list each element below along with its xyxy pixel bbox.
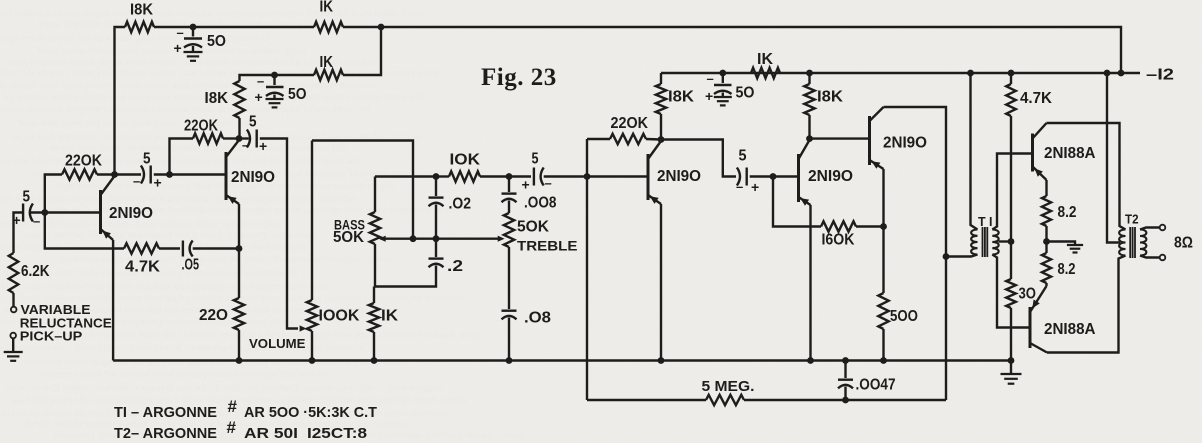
capacitor C2 50uF decoupling with ground [266, 75, 284, 107]
potentiometer BASS 50K body [370, 177, 380, 287]
label + (C11) [522, 177, 530, 193]
node Q1 collector [111, 171, 118, 178]
label - (C2) [257, 74, 264, 89]
node rail Q2 emitter chain [236, 357, 243, 364]
svg-text:IK: IK [757, 51, 774, 68]
svg-text:8.2: 8.2 [1058, 261, 1076, 278]
resistor R19 4.7K (bias) [1006, 73, 1016, 241]
wire .05 to Q2 emitter [193, 247, 239, 249]
capacitor C12 50uF decoupling with ground [714, 73, 732, 105]
svg-text:2NI9O: 2NI9O [109, 205, 153, 222]
label VARIABLE [21, 302, 91, 317]
resistor R9 220 (Q2 emitter) [234, 298, 244, 330]
label 500 [890, 308, 918, 325]
resistor R22 8.2 (lower emitter) [1042, 242, 1051, 287]
svg-text:+: + [154, 175, 162, 191]
svg-text:.O2: .O2 [449, 196, 472, 213]
svg-text:.OO47: .OO47 [856, 377, 896, 394]
label + (C3) [13, 212, 21, 228]
wire bass top to node [375, 175, 436, 177]
label 50 (C1) [207, 33, 226, 50]
wire Q5 collector to T1 [884, 107, 947, 400]
node Q4 base [770, 173, 777, 180]
svg-text:5O: 5O [207, 33, 226, 50]
label 2N190 (Q1) [109, 205, 153, 222]
capacitor C4 5uF interstage [115, 166, 151, 184]
capacitor C7 .02 [429, 177, 444, 239]
svg-text:IOK: IOK [450, 152, 481, 169]
svg-text:5: 5 [143, 151, 151, 168]
svg-text:2NI88A: 2NI88A [1044, 321, 1096, 338]
transistor Q1 2N190 [101, 176, 115, 240]
svg-text:I8K: I8K [205, 90, 229, 107]
node 50uF-3 tap [719, 70, 726, 77]
svg-text:–: – [736, 179, 743, 194]
resistor R18 5 MEG (overall feedback) [587, 395, 946, 405]
node wiper/.02/.2 [433, 235, 440, 242]
capacitor C1 50uF decoupling with ground [184, 27, 203, 61]
wire stage3 input vertical [586, 139, 588, 400]
wire Q3 emitter to rail [660, 204, 662, 361]
label .2 [447, 258, 463, 275]
label 5 MEG. [702, 378, 755, 395]
svg-text:6.2K: 6.2K [21, 263, 50, 280]
svg-text:IOOK: IOOK [319, 308, 361, 325]
label TREBLE [517, 238, 578, 254]
label 2N190 (Q5) [883, 135, 927, 152]
resistor R7 4.7K (feedback) [124, 243, 159, 253]
wire T2 secondary bottom to terminal [1140, 256, 1160, 258]
label 4.7K (R19) [1020, 90, 1053, 107]
wire Q4 collector to Q5 base [810, 137, 870, 139]
svg-text:+: + [259, 138, 267, 154]
svg-text:5: 5 [249, 114, 257, 131]
label IK (R11) [381, 308, 399, 325]
node 4.7K rail [1008, 70, 1015, 77]
svg-text:–: – [707, 71, 714, 86]
wire T1 secondary top to upper output base [992, 154, 1032, 230]
wire Q3 base [587, 175, 648, 177]
svg-text:I6OK: I6OK [822, 232, 856, 249]
label 2N188A (Q6) [1044, 145, 1096, 162]
label PICK-UP [20, 329, 83, 344]
resistor R1 18K (top-left, in top rail) [125, 22, 154, 32]
resistor R16 160K (feedback Q4 base to Q5 emitter) [773, 177, 884, 232]
wire rail to ground [1010, 361, 1012, 375]
node 500 rail [880, 357, 887, 364]
transistor Q5 2N190 [870, 107, 884, 169]
svg-text:5OO: 5OO [890, 308, 918, 325]
label 50K (bass) [333, 229, 365, 246]
wire ground rail [113, 359, 1011, 361]
resistor R11 1K (bass return) [369, 287, 379, 361]
label T2 [1125, 212, 1139, 227]
node Q2 base branch [166, 171, 173, 178]
potentiometer VOLUME 100K body [307, 141, 317, 361]
node treble top [506, 173, 513, 180]
caption T1 spec [114, 397, 377, 421]
label - (C3) [33, 214, 40, 229]
svg-text:.OO8: .OO8 [524, 195, 557, 212]
svg-text:2NI9O: 2NI9O [231, 169, 275, 186]
transistor Q3 2N190 [648, 141, 661, 204]
svg-text:TREBLE: TREBLE [517, 238, 578, 254]
label 100K [319, 308, 361, 325]
svg-text:I8K: I8K [668, 89, 695, 106]
resistor R4 18K (Q2 collector load) [234, 81, 244, 118]
label 5 (C13) [739, 148, 747, 165]
svg-text:#: # [227, 418, 237, 437]
label 220K (R12) [611, 115, 649, 132]
node at 50uF cap 2 [271, 72, 278, 79]
bass wiper arrow (left) [379, 236, 386, 242]
wire left vertical from top rail to Q1 collector node [115, 27, 126, 175]
svg-text:TI – ARGONNE: TI – ARGONNE [114, 404, 217, 421]
wire T1 primary top [971, 73, 978, 230]
svg-text:.O8: .O8 [524, 310, 551, 327]
node top rail to second rail tap [378, 24, 385, 31]
wire 18K to Q2 collector node [238, 118, 240, 139]
node .0047 top rail [842, 357, 849, 364]
label 220 (R9) [199, 307, 228, 324]
potentiometer TREBLE 50K body [504, 213, 514, 309]
terminal pickup top [11, 307, 17, 313]
capacitor C11 5uF (to stage 3) [509, 168, 587, 186]
label 4.7K (R7) [125, 259, 161, 276]
label RELUCTANCE [20, 316, 112, 331]
node input [41, 209, 48, 216]
svg-text:4.7K: 4.7K [1020, 90, 1053, 107]
svg-text:2NI9O: 2NI9O [808, 168, 853, 185]
wire second rail to 18K drop [240, 75, 315, 81]
wire Q4 base [773, 175, 799, 177]
svg-text:5O: 5O [288, 86, 307, 103]
label 30 [1019, 286, 1037, 303]
transformer T1 secondary winding [992, 230, 998, 255]
terminal output bottom [1160, 255, 1166, 261]
label 18K (R4) [205, 90, 229, 107]
transformer T1 core [983, 227, 988, 257]
svg-text:5OK: 5OK [333, 229, 365, 246]
node Q3 collector [658, 136, 665, 143]
transformer T1 primary winding [971, 230, 977, 255]
svg-text:IK: IK [381, 308, 399, 325]
node bass-top/.02/10K [433, 173, 440, 180]
svg-text:5O: 5O [736, 85, 755, 102]
label 160K [822, 232, 856, 249]
label T1 [978, 214, 993, 229]
svg-text:22OK: 22OK [184, 118, 219, 135]
label 5 (C4) [143, 151, 151, 168]
node stage3 base [584, 173, 591, 180]
svg-text:2NI88A: 2NI88A [1044, 145, 1096, 162]
label - (C11) [545, 176, 552, 191]
wire Q7 collector to T2 bottom [1047, 256, 1126, 353]
node .0047 bottom [842, 397, 849, 404]
node 18K-4 top [806, 70, 813, 77]
label + (C13) [751, 179, 759, 195]
svg-text:+: + [522, 177, 530, 193]
node 160K / Q5 emitter [880, 223, 887, 230]
node T1 primary top rail [967, 70, 974, 77]
resistor R2 1K (in top rail) [314, 22, 343, 32]
svg-text:4.7K: 4.7K [125, 259, 161, 276]
label 1K (R14) [757, 51, 774, 68]
transistor Q2 2N190 [226, 140, 239, 204]
label - (C13) [736, 179, 743, 194]
svg-text:T2– ARGONNE: T2– ARGONNE [114, 425, 217, 442]
wire T1 center tap [999, 240, 1012, 242]
label 18K (R15) [817, 89, 844, 106]
label 50 (C12) [736, 85, 755, 102]
wire input cap to 6.2K [14, 213, 24, 254]
caption T2 spec [114, 418, 367, 442]
label BASS [334, 218, 365, 233]
svg-text:AR 5OO ·5K:3K C.T: AR 5OO ·5K:3K C.T [244, 404, 377, 421]
svg-text:2NI9O: 2NI9O [883, 135, 927, 152]
label 8.2 (R21) [1058, 204, 1077, 221]
wire input node [30, 211, 101, 213]
resistor R8 220K (Q2 bias feedback) [170, 133, 240, 174]
wire Q6 collector to T2 top [1047, 123, 1126, 230]
label 1K (R3) [320, 54, 334, 71]
svg-text:.2: .2 [447, 258, 463, 275]
transistor Q6 2N188A (upper output) [1033, 123, 1047, 180]
svg-text:–: – [33, 214, 40, 229]
wire terminal to ground [12, 338, 14, 352]
resistor R21 8.2 (upper emitter) [1042, 180, 1051, 242]
transistor Q7 2N188A (lower output) [1030, 286, 1047, 353]
wire volume top to bass wiper line [312, 141, 413, 239]
wire Q4 emitter to rail [809, 205, 811, 361]
label .0047 [856, 377, 896, 394]
wire Q5 emitter down [882, 169, 884, 293]
node T1 CT / divider [1008, 238, 1015, 245]
label 2N190 (Q4) [808, 168, 853, 185]
label 5 (C11) [532, 151, 539, 168]
label 18K [130, 2, 154, 19]
transformer T2 core [1130, 227, 1135, 258]
volume wiper arrow [300, 325, 307, 331]
node emitter resistors junction [1043, 238, 1050, 245]
label 10K [450, 152, 481, 169]
wire T1 secondary bottom to lower output base [992, 255, 1030, 328]
ground (output mid) [1067, 245, 1083, 253]
wire 6.2K to terminal [12, 293, 14, 307]
node top rail junction [1118, 70, 1125, 77]
svg-text:2NI9O: 2NI9O [657, 168, 701, 185]
label 50K (treble) [517, 219, 550, 236]
label - (C6) [242, 138, 249, 153]
label - (C1) [177, 25, 184, 40]
label 220K (R8) [184, 118, 219, 135]
label -12 [1146, 67, 1174, 84]
label 50 (C2) [288, 86, 307, 103]
ground (pickup) [4, 352, 23, 361]
label 220K (R6) [65, 153, 103, 170]
node wiper row / top feed [410, 235, 417, 242]
svg-text:T I: T I [978, 214, 993, 229]
resistor R20 30 (bias divider) [1006, 242, 1016, 361]
svg-text:5: 5 [532, 151, 539, 168]
node volume bottom [309, 357, 316, 364]
wire T2 secondary top to terminal [1140, 228, 1160, 230]
terminal pickup bottom [10, 333, 16, 339]
capacitor C3 5uF input coupling [23, 204, 33, 222]
svg-text:T2: T2 [1125, 212, 1139, 227]
resistor R13 18K (Q3 load) [656, 73, 666, 140]
capacitor C5 .05 (feedback) [183, 241, 193, 257]
label 8.2 (R22) [1058, 261, 1076, 278]
svg-text:I25CT:8: I25CT:8 [307, 425, 367, 442]
svg-text:+: + [751, 179, 759, 195]
svg-text:#: # [228, 397, 238, 416]
node Q3 emitter rail [658, 357, 665, 364]
wire feedback row [45, 213, 124, 249]
label 5 (input cap) [23, 189, 31, 206]
wire 4.7K to .05 [159, 247, 180, 249]
label .008 [524, 195, 557, 212]
svg-text:8.2: 8.2 [1058, 204, 1077, 221]
svg-text:AR 50I: AR 50I [244, 425, 298, 442]
resistor R15 18K (Q4 load) [804, 73, 814, 139]
capacitor C10 .08 [502, 311, 517, 361]
wire C6 to volume wiper [260, 139, 298, 329]
node Q4 collector [806, 135, 813, 142]
label VOLUME [249, 336, 306, 351]
resistor R5 6.2K [9, 253, 19, 293]
terminal output top [1160, 225, 1166, 231]
resistor R14 1K (rail filter) [751, 68, 780, 78]
node 1K bottom [371, 357, 378, 364]
capacitor C13 5uF (stage3 to stage4) [661, 140, 773, 186]
ground (main rail) [1001, 374, 1022, 384]
svg-text:I8K: I8K [130, 2, 154, 19]
wire Q1 emitter to ground rail [112, 240, 114, 361]
label + (C2) [255, 89, 263, 105]
svg-text:5OK: 5OK [517, 219, 550, 236]
wire 500 to rail [882, 329, 884, 361]
svg-text:5: 5 [739, 148, 747, 165]
capacitor C6 5uF (Q2 out coupling) [239, 130, 257, 148]
wire 220 to rail [238, 330, 240, 361]
label 8 ohm [1174, 235, 1193, 252]
label + (C6) [259, 138, 267, 154]
svg-text:–: – [133, 174, 140, 189]
svg-text:22OK: 22OK [611, 115, 649, 132]
node Q4 emitter rail [807, 357, 814, 364]
wiper row wire [381, 237, 500, 239]
svg-text:–: – [242, 138, 249, 153]
svg-text:+: + [705, 88, 713, 104]
label - (C4) [133, 174, 140, 189]
node rail end [1008, 357, 1015, 364]
svg-text:+: + [255, 89, 263, 105]
label .08 [524, 310, 551, 327]
svg-text:3O: 3O [1019, 286, 1037, 303]
svg-text:VOLUME: VOLUME [249, 336, 306, 351]
svg-text:I8K: I8K [817, 89, 844, 106]
label 5 (C6) [249, 114, 257, 131]
svg-text:IK: IK [320, 0, 334, 16]
resistor R17 500 (Q5 emitter) [878, 293, 888, 329]
svg-text:8Ω: 8Ω [1174, 235, 1193, 252]
resistor R10 10K [436, 171, 509, 181]
label - (C12) [707, 71, 714, 86]
wire T2 center tap feed [1107, 73, 1120, 243]
svg-text:Fig. 23: Fig. 23 [481, 64, 557, 91]
node Q2 emitter / .05 [236, 245, 243, 252]
label + (C4) [154, 175, 162, 191]
treble wiper arrow (right) [498, 236, 505, 242]
wire top rail right section [343, 27, 1121, 73]
wire -12 rail [661, 72, 1140, 74]
label 6.2K [21, 263, 50, 280]
svg-text:22OK: 22OK [65, 153, 103, 170]
capacitor C14 .0047 [838, 361, 853, 401]
svg-text:–: – [177, 25, 184, 40]
svg-text:–I2: –I2 [1146, 67, 1174, 84]
node at 50uF cap tap [190, 24, 197, 31]
resistor R3 1K (stage1-2 supply filter) [314, 70, 343, 80]
svg-text:–: – [257, 74, 264, 89]
svg-text:–: – [545, 176, 552, 191]
capacitor C8 .2 [375, 239, 444, 287]
label 1K (R2) [320, 0, 334, 16]
label 2N188A (Q7) [1044, 321, 1096, 338]
label .02 [449, 196, 472, 213]
label 2N190 (Q2) [231, 169, 275, 186]
label 18K (R13) [668, 89, 695, 106]
node T2 center tap rail [1104, 70, 1111, 77]
wire top rail from 18K to 1K [154, 26, 314, 28]
svg-text:22O: 22O [199, 307, 228, 324]
label Fig. 23 [481, 64, 557, 91]
node treble bottom [506, 357, 513, 364]
wire supply branch for first two stages [343, 27, 381, 75]
node T1 primary bottom [943, 253, 950, 260]
transformer T2 secondary winding [1140, 230, 1146, 256]
capacitor C9 .008 [502, 177, 517, 214]
wire T1 primary bottom to Q5 collector node [946, 255, 978, 257]
resistor R6 220K (Q1 bias feedback) [45, 169, 115, 212]
svg-text:.O5: .O5 [182, 257, 200, 274]
wire Q2 emitter down [238, 204, 240, 298]
wire C4 to Q2 base [154, 173, 226, 175]
label .05 [182, 257, 200, 274]
node Q2 collector [236, 135, 243, 142]
resistor R12 220K (Q3 feedback) [587, 134, 661, 144]
svg-text:IK: IK [320, 54, 334, 71]
label + (C12) [705, 88, 713, 104]
label + (C1) [174, 40, 182, 56]
label 2N190 (Q3) [657, 168, 701, 185]
wire junction to ground [1047, 242, 1076, 246]
svg-text:5 MEG.: 5 MEG. [702, 378, 755, 395]
transistor Q4 2N190 [799, 140, 811, 206]
svg-text:5: 5 [23, 189, 31, 206]
svg-text:+: + [174, 40, 182, 56]
transformer T2 primary winding [1119, 230, 1125, 256]
svg-text:PICK–UP: PICK–UP [20, 329, 83, 344]
